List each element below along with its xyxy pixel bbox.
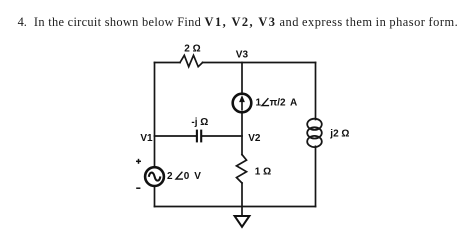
svg-text:V3: V3 bbox=[236, 49, 249, 60]
svg-text:π/2: π/2 bbox=[270, 98, 286, 109]
svg-text:V: V bbox=[194, 171, 201, 182]
svg-text:V1: V1 bbox=[140, 133, 153, 144]
svg-text:-j Ω: -j Ω bbox=[191, 117, 208, 128]
svg-text:0: 0 bbox=[184, 171, 190, 182]
svg-text:2: 2 bbox=[167, 171, 173, 182]
svg-text:1: 1 bbox=[256, 98, 262, 109]
svg-text:2 Ω: 2 Ω bbox=[184, 44, 200, 55]
svg-text:1 Ω: 1 Ω bbox=[255, 167, 271, 178]
svg-text:A: A bbox=[290, 98, 297, 109]
svg-text:V2: V2 bbox=[248, 133, 261, 144]
svg-text:j2 Ω: j2 Ω bbox=[329, 128, 349, 139]
